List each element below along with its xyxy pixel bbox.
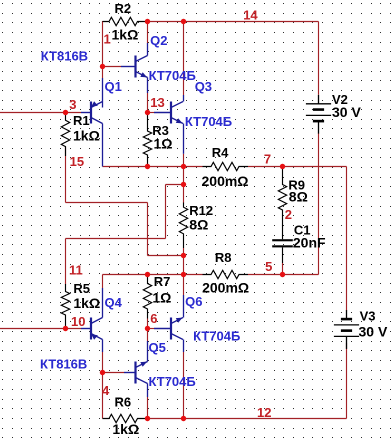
svg-text:R6: R6 (115, 395, 132, 410)
svg-text:12: 12 (257, 405, 271, 420)
svg-text:10: 10 (71, 314, 85, 329)
svg-text:V3: V3 (360, 309, 376, 324)
svg-text:Q3: Q3 (195, 79, 212, 94)
svg-text:R8: R8 (215, 250, 232, 265)
svg-text:R12: R12 (189, 203, 213, 218)
svg-text:3: 3 (69, 97, 76, 112)
svg-text:КТ816В: КТ816В (40, 357, 87, 372)
svg-text:R2: R2 (115, 1, 132, 16)
svg-text:13: 13 (150, 95, 164, 110)
svg-text:5: 5 (265, 259, 272, 274)
svg-text:15: 15 (70, 154, 84, 169)
svg-text:КТ704Б: КТ704Б (149, 68, 196, 83)
svg-text:Q5: Q5 (149, 340, 166, 355)
svg-text:Q1: Q1 (105, 79, 122, 94)
svg-text:R5: R5 (73, 281, 90, 296)
svg-text:R4: R4 (212, 145, 229, 160)
svg-text:14: 14 (243, 8, 258, 23)
svg-text:КТ704Б: КТ704Б (149, 374, 196, 389)
svg-text:Q2: Q2 (150, 33, 167, 48)
svg-text:30 V: 30 V (332, 104, 361, 120)
svg-text:2: 2 (285, 207, 292, 222)
svg-text:20nF: 20nF (293, 235, 326, 251)
svg-text:1kΩ: 1kΩ (112, 26, 139, 42)
svg-text:R7: R7 (154, 274, 171, 289)
svg-text:6: 6 (150, 311, 157, 326)
svg-text:8Ω: 8Ω (189, 217, 208, 233)
svg-text:Q6: Q6 (185, 294, 202, 309)
svg-text:200mΩ: 200mΩ (202, 280, 249, 296)
svg-text:1Ω: 1Ω (152, 289, 171, 305)
svg-text:R1: R1 (73, 113, 90, 128)
svg-text:1Ω: 1Ω (154, 135, 173, 151)
svg-text:КТ704Б: КТ704Б (185, 114, 232, 129)
svg-text:4: 4 (102, 383, 110, 398)
svg-text:КТ704Б: КТ704Б (193, 329, 240, 344)
svg-text:Q4: Q4 (105, 295, 123, 310)
svg-text:КТ816В: КТ816В (41, 48, 88, 63)
svg-text:7: 7 (264, 151, 271, 166)
svg-text:1kΩ: 1kΩ (112, 421, 139, 437)
svg-text:1: 1 (104, 32, 111, 47)
svg-text:11: 11 (69, 262, 83, 277)
svg-text:1kΩ: 1kΩ (73, 295, 100, 311)
svg-text:200mΩ: 200mΩ (202, 173, 249, 189)
svg-text:30 V: 30 V (359, 324, 388, 340)
svg-text:8Ω: 8Ω (289, 189, 308, 205)
svg-text:1kΩ: 1kΩ (73, 127, 100, 143)
